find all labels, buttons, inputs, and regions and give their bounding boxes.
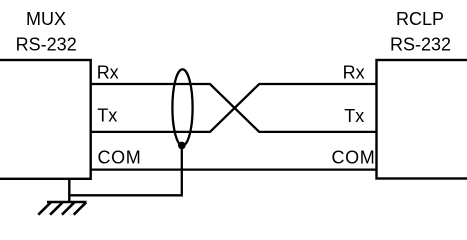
svg-text:RS-232: RS-232 xyxy=(390,35,451,55)
wire MUX Rx to RCLP Tx (crossover) xyxy=(91,84,378,132)
svg-text:Rx: Rx xyxy=(97,63,119,83)
ground symbol hatch 3 xyxy=(62,202,75,214)
shield drain wire to ground xyxy=(69,145,182,195)
cable shield ellipse xyxy=(172,69,192,145)
svg-text:Tx: Tx xyxy=(344,106,364,126)
ground symbol hatch 2 xyxy=(50,202,63,214)
svg-text:MUX: MUX xyxy=(26,9,66,29)
svg-text:COM: COM xyxy=(98,147,142,167)
device box RCLP (right, clipped at right edge) xyxy=(377,60,467,179)
wire COM to COM xyxy=(91,168,378,170)
ground symbol hatch 4 xyxy=(74,202,87,214)
device box MUX (left, clipped at left edge) xyxy=(0,60,91,179)
ground symbol bar xyxy=(47,201,87,203)
svg-text:Tx: Tx xyxy=(97,106,117,126)
wire MUX Tx to RCLP Rx (crossover) xyxy=(91,84,378,132)
svg-text:COM: COM xyxy=(332,147,376,167)
svg-text:RS-232: RS-232 xyxy=(16,35,77,55)
svg-text:RCLP: RCLP xyxy=(396,9,444,29)
svg-text:Rx: Rx xyxy=(343,62,365,82)
shield drain junction dot xyxy=(178,142,186,150)
ground lead wire from MUX chassis xyxy=(68,179,70,202)
ground symbol hatch 1 xyxy=(38,202,51,214)
